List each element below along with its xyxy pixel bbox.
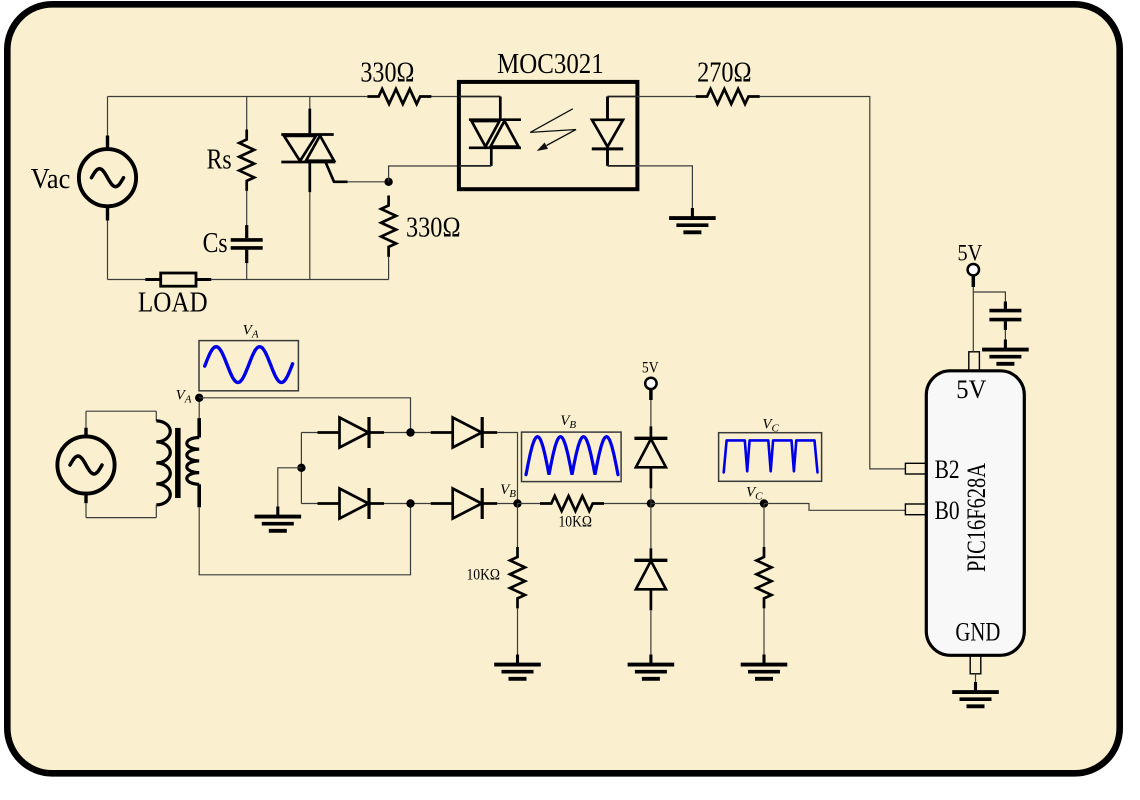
wire MOC pin1 internal bbox=[459, 96, 500, 98]
photo-triac in MOC bbox=[499, 97, 502, 120]
wire MOC pin6 to 270 bbox=[637, 96, 695, 98]
wire 10K to clamp junction bbox=[604, 503, 651, 505]
resistor 10K pulldown VB bbox=[510, 547, 525, 608]
wire bridge left bracket bbox=[300, 433, 302, 504]
wire secondary top to VA bbox=[198, 398, 200, 418]
wire VC down bbox=[763, 504, 765, 548]
wire Rs column bbox=[246, 97, 248, 280]
diode clamp lower bbox=[650, 548, 653, 560]
LED in MOC bbox=[608, 96, 638, 98]
source Vac bbox=[106, 136, 109, 150]
wire triac gate to junction bbox=[348, 181, 389, 183]
wire Vac left vertical bbox=[107, 97, 109, 280]
node bridge bottom bbox=[406, 499, 414, 507]
wire MOC pin2 internal bbox=[459, 165, 491, 167]
node VA bbox=[195, 394, 203, 402]
wire 270 to B2 bbox=[760, 97, 906, 469]
diode D4 bbox=[431, 502, 453, 505]
transformer secondary winding bbox=[197, 418, 201, 437]
capacitor Cs bbox=[245, 225, 248, 238]
waveform VC clipped bbox=[724, 440, 818, 472]
diode D2 bbox=[431, 431, 453, 434]
wire bracket to ground bbox=[278, 468, 302, 507]
wire bottom rail bbox=[108, 279, 389, 281]
svg-text:5V: 5V bbox=[958, 241, 983, 267]
svg-text:5V: 5V bbox=[642, 360, 659, 377]
node gate junction bbox=[384, 178, 392, 186]
wire VA rail to bridge top bbox=[199, 398, 410, 433]
svg-text:10KΩ: 10KΩ bbox=[467, 567, 501, 584]
svg-text:270Ω: 270Ω bbox=[697, 58, 752, 89]
wire clamp junction up bbox=[650, 488, 652, 503]
ground VB resistor bbox=[516, 655, 519, 664]
svg-text:10KΩ: 10KΩ bbox=[559, 514, 593, 531]
node VC bbox=[760, 499, 768, 507]
wire PIC bottom to ground bbox=[975, 674, 977, 682]
capacitor bypass bbox=[1004, 302, 1007, 309]
wire junction up to MOC pin 2 bbox=[389, 166, 459, 182]
wire top rail left bbox=[108, 96, 368, 98]
pin B2 bbox=[905, 463, 926, 474]
ground bypass cap bbox=[1004, 340, 1007, 349]
svg-text:330Ω: 330Ω bbox=[406, 213, 461, 244]
ground VC resistor bbox=[762, 655, 765, 664]
IC U2 PIC16F628A body bbox=[926, 371, 1024, 656]
wire lower diode to ground bbox=[650, 610, 652, 654]
wire VB down bbox=[517, 504, 519, 548]
ground bridge bbox=[276, 507, 279, 516]
svg-text:Rs: Rs bbox=[207, 144, 232, 175]
node bracket junction bbox=[297, 464, 305, 472]
wire top rail resistor to MOC bbox=[430, 96, 459, 98]
ground MOC bbox=[691, 208, 694, 217]
node bridge top bbox=[406, 428, 414, 436]
wire MOC pin4 to ground bbox=[637, 166, 692, 208]
resistor Rs bbox=[239, 130, 254, 191]
wire 330 gate to bottom rail bbox=[388, 257, 390, 280]
wire diode to 5V terminal bbox=[650, 400, 652, 426]
wire secondary bottom rail to bridge bottom bbox=[199, 504, 410, 575]
pin VSS bottom bbox=[970, 655, 981, 674]
scope box VA bbox=[199, 341, 298, 391]
ground PIC bbox=[974, 682, 977, 691]
scope box VC bbox=[719, 433, 822, 482]
scope box VB bbox=[522, 432, 622, 482]
diode D1 bbox=[318, 431, 340, 434]
wire VC resistor to ground bbox=[763, 608, 765, 654]
svg-text:LOAD: LOAD bbox=[138, 288, 208, 319]
triac Q1 bbox=[308, 109, 311, 135]
wire to ground VB bbox=[517, 608, 519, 654]
resistor 330 (gate, vertical) bbox=[381, 196, 396, 257]
wire 5V to PIC top pin bbox=[972, 287, 974, 352]
resistor LOAD (box style) bbox=[145, 278, 160, 281]
svg-text:GND: GND bbox=[955, 618, 1000, 647]
ground clamp bbox=[649, 655, 652, 664]
svg-text:B2: B2 bbox=[935, 455, 960, 484]
transformer core bbox=[175, 428, 181, 498]
wire clamp junction down bbox=[650, 504, 652, 549]
resistor 330 (top) bbox=[367, 89, 431, 104]
svg-text:Cs: Cs bbox=[203, 228, 228, 259]
svg-text:B0: B0 bbox=[935, 496, 960, 525]
pin B0 bbox=[905, 504, 926, 515]
svg-text:PIC16F628A: PIC16F628A bbox=[962, 463, 991, 572]
diode D3 bbox=[318, 502, 340, 505]
terminal 5V clamp bbox=[649, 389, 653, 401]
wire VC to B0 bbox=[764, 504, 905, 511]
pin VDD top bbox=[969, 352, 980, 371]
light arrow (lightning) bbox=[530, 109, 576, 146]
wire VB to 10K series bbox=[518, 503, 541, 505]
transformer primary winding bbox=[155, 411, 157, 421]
node clamp junction bbox=[647, 499, 655, 507]
svg-text:5V: 5V bbox=[956, 375, 986, 404]
wire bottom row bbox=[301, 503, 517, 505]
wire top row bbox=[301, 433, 517, 504]
diode clamp upper bbox=[650, 426, 653, 438]
svg-text:MOC3021: MOC3021 bbox=[497, 49, 604, 80]
wire clamp junction to VC bbox=[651, 503, 764, 505]
waveform VB rectified bbox=[526, 437, 618, 475]
resistor pulldown VC bbox=[757, 547, 772, 608]
resistor 270 bbox=[696, 89, 760, 104]
resistor 10K series bbox=[540, 496, 604, 511]
waveform VA sine bbox=[205, 347, 293, 383]
wire cap to ground bbox=[1004, 330, 1006, 340]
wire triac column bbox=[309, 97, 311, 280]
wire branch to bypass cap bbox=[973, 292, 1005, 302]
svg-text:330Ω: 330Ω bbox=[360, 57, 414, 88]
opto-coupler U1 MOC3021 box bbox=[459, 82, 638, 189]
wire primary loop bbox=[86, 411, 156, 517]
wire MOC pin4 internal bbox=[608, 165, 638, 167]
source AC (transformer primary) bbox=[84, 428, 87, 437]
svg-text:Vac: Vac bbox=[31, 164, 71, 195]
node VB bbox=[513, 499, 521, 507]
